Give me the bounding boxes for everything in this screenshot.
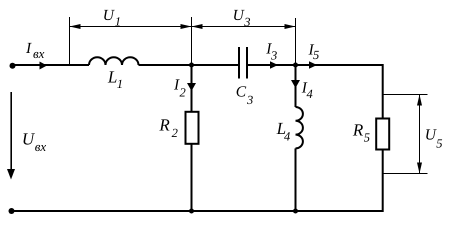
label C3 (236, 84, 253, 107)
wire L4 branch upper (295, 65, 297, 107)
label L4 (276, 119, 291, 143)
node junction B bottom (293, 209, 298, 214)
label I4 (301, 80, 313, 102)
current arrow I2 (187, 83, 196, 91)
dimension tick x70 (69, 17, 71, 65)
svg-text:3: 3 (243, 15, 250, 29)
node input terminal top (10, 63, 16, 69)
label I2 (173, 77, 186, 100)
wire bottom (12, 210, 383, 212)
svg-text:1: 1 (117, 77, 123, 91)
svg-text:4: 4 (284, 129, 290, 143)
svg-text:2: 2 (172, 126, 178, 140)
resistor R5 (376, 119, 389, 150)
label L1 (107, 68, 123, 91)
svg-text:вх: вх (33, 46, 45, 61)
node junction A top (189, 63, 194, 68)
capacitor C3 (239, 47, 247, 79)
inductor L4 (296, 107, 303, 148)
wire R2 branch upper (191, 65, 193, 111)
dimension tick U5 top (383, 94, 428, 96)
svg-text:5: 5 (436, 136, 442, 150)
dimension line U3 (192, 24, 296, 29)
current arrow I_vx (40, 62, 48, 70)
wire L4 branch lower (295, 148, 297, 211)
svg-text:3: 3 (270, 48, 277, 62)
label R5 (352, 120, 370, 144)
svg-text:C: C (236, 84, 247, 101)
dimension line U5 (417, 95, 422, 174)
wire right branch upper (382, 64, 384, 118)
voltage arrow U_vx (7, 92, 15, 180)
svg-text:1: 1 (115, 15, 121, 29)
node junction A bottom (189, 209, 194, 214)
inductor L1 (89, 57, 139, 65)
svg-text:3: 3 (246, 93, 253, 107)
label I5 (308, 42, 320, 63)
svg-text:4: 4 (307, 87, 313, 101)
current arrow I4 (291, 80, 300, 88)
svg-text:5: 5 (364, 131, 370, 145)
current arrow I3 (270, 61, 278, 69)
dimension tick x191 (191, 17, 193, 65)
wire R2 branch lower (191, 144, 193, 212)
node input terminal bottom (9, 208, 15, 214)
dimension tick x295 (295, 18, 297, 65)
label R2 (158, 116, 177, 140)
dimension line U1 (70, 24, 192, 29)
current arrow I5 (309, 61, 317, 69)
resistor R2 (186, 112, 199, 144)
label U1 (103, 7, 121, 29)
wire top left segment (13, 64, 90, 66)
svg-text:вх: вх (35, 139, 47, 154)
dimension tick U5 bottom (383, 173, 428, 175)
label U3 (233, 7, 251, 29)
wire top right segment (248, 64, 383, 66)
svg-text:R: R (352, 120, 364, 139)
svg-text:2: 2 (180, 86, 186, 100)
label U5 (425, 127, 443, 151)
svg-text:I: I (25, 40, 32, 57)
wire top middle segment (139, 64, 239, 66)
label I_vx (25, 40, 45, 61)
svg-text:L: L (107, 68, 117, 87)
svg-text:5: 5 (313, 48, 319, 62)
svg-text:R: R (158, 116, 170, 135)
label U_vx (22, 130, 46, 154)
wire right branch lower (382, 150, 384, 213)
label I3 (265, 41, 277, 63)
node junction B top (293, 63, 298, 68)
